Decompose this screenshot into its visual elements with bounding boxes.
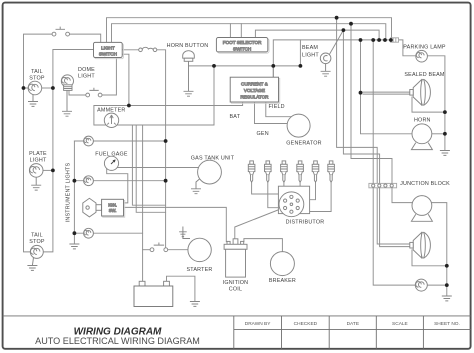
ground below horn button bbox=[184, 91, 194, 96]
svg-text:REGULATOR: REGULATOR bbox=[240, 94, 269, 99]
wire fuel gage to gas tank unit bbox=[117, 167, 198, 169]
spark plug 2 bbox=[265, 161, 272, 182]
wire gen lead bbox=[255, 102, 288, 124]
distributor box bbox=[278, 186, 309, 213]
svg-text:SWITCH: SWITCH bbox=[99, 51, 117, 56]
svg-text:DATE: DATE bbox=[347, 321, 359, 327]
node busA lamp1 bbox=[164, 139, 168, 143]
node plate right bbox=[51, 169, 55, 173]
breaker bbox=[270, 252, 294, 276]
node horn wire c bbox=[299, 64, 303, 68]
wire regulator top feed bbox=[272, 66, 274, 77]
wire cutout switch right leg to light switch bbox=[69, 34, 100, 42]
current voltage regulator box U2 bbox=[230, 77, 279, 103]
svg-text:DOME: DOME bbox=[78, 67, 95, 73]
wire ign area link to bus A bbox=[136, 125, 165, 212]
wire light switch right to fuse bbox=[122, 49, 139, 51]
ground below tail stop 1 bbox=[28, 94, 38, 106]
wire right bus D3 stair to sealed beam 2 lower bbox=[343, 30, 409, 247]
lamp dome light bbox=[61, 75, 73, 91]
beam light lamp bbox=[320, 53, 331, 64]
wire spark plug 1 lead bbox=[252, 182, 279, 194]
svg-text:LIGHT: LIGHT bbox=[101, 45, 115, 50]
svg-text:DRAWN BY: DRAWN BY bbox=[245, 321, 271, 327]
svg-text:PARKING LAMP: PARKING LAMP bbox=[403, 44, 446, 50]
node horn wire b bbox=[271, 64, 275, 68]
wire light switch right to bat junction bbox=[122, 54, 129, 105]
wire tail stop 1 right lead bbox=[42, 87, 53, 89]
firewall connector bbox=[391, 38, 399, 42]
wire tail stop 1 left lead bbox=[24, 87, 29, 89]
svg-text:JUNCTION BLOCK: JUNCTION BLOCK bbox=[400, 181, 450, 187]
wire instrument lamp2 leads bbox=[74, 180, 165, 182]
spark plug 1 bbox=[248, 161, 255, 182]
node inst2 bbox=[73, 179, 77, 183]
svg-text:BEAM: BEAM bbox=[302, 45, 318, 51]
parking lamp bbox=[416, 50, 428, 62]
starter motor bbox=[188, 238, 211, 261]
svg-text:LIGHT: LIGHT bbox=[30, 158, 47, 164]
wire sealed beam 2 bottom link bbox=[412, 250, 447, 266]
spark plug 6 bbox=[328, 161, 335, 182]
node conn a bbox=[359, 38, 363, 42]
battery BT1 bbox=[134, 281, 173, 306]
ground below horn right column bbox=[440, 151, 450, 156]
node conn c bbox=[377, 38, 381, 42]
svg-text:FUEL GAGE: FUEL GAGE bbox=[95, 152, 128, 158]
sealed beam 1 bbox=[410, 79, 431, 105]
node horn1 link bbox=[443, 132, 447, 136]
wire parking lamp right to right column bbox=[427, 56, 445, 151]
wire ammeter drop to ign area bbox=[132, 125, 165, 205]
junction block connector bbox=[369, 183, 397, 187]
node conn e bbox=[389, 38, 393, 42]
wire sealed beam 1 feed bbox=[361, 92, 410, 94]
wire junction horn right lead to lower column bbox=[431, 203, 446, 296]
svg-text:HORN: HORN bbox=[414, 117, 431, 123]
svg-text:SHEET NO.: SHEET NO. bbox=[434, 321, 460, 327]
lamp plate light bbox=[29, 164, 43, 178]
wire horn junction up to connector run bbox=[299, 40, 301, 66]
svg-text:STARTER: STARTER bbox=[186, 267, 212, 273]
wire right bus D2 stair to junction block horn bbox=[351, 24, 412, 203]
wire light switch bottom to dome switch bbox=[102, 58, 117, 96]
spark plug 4 bbox=[297, 161, 304, 182]
junction block horn 2 bbox=[411, 196, 432, 222]
svg-text:TAIL: TAIL bbox=[31, 69, 43, 75]
svg-text:VOLTAGE: VOLTAGE bbox=[244, 88, 265, 93]
node horn wire a bbox=[212, 64, 216, 68]
svg-text:DISTRIBUTOR: DISTRIBUTOR bbox=[286, 219, 325, 225]
wire starter switch left lead bbox=[143, 249, 151, 251]
svg-text:GAS TANK UNIT: GAS TANK UNIT bbox=[191, 155, 235, 161]
starter switch S2 bbox=[150, 243, 168, 252]
cutout switch S1 top left bbox=[52, 27, 69, 36]
wire instrument lights bus bbox=[73, 141, 75, 244]
ignition coil T1 bbox=[224, 239, 247, 277]
title block bbox=[3, 316, 471, 349]
ammeter M1 bbox=[104, 113, 118, 127]
wire instrument lamp1 leads bbox=[74, 140, 165, 142]
svg-text:SW.: SW. bbox=[109, 208, 117, 213]
svg-text:TAIL: TAIL bbox=[31, 233, 43, 239]
horn button bbox=[183, 51, 195, 92]
instrument lamp 2 bbox=[84, 176, 94, 186]
wire connector drop to rear lamp bbox=[373, 40, 415, 285]
wire bat regulator to ammeter loop bbox=[94, 102, 243, 281]
svg-text:HORN BUTTON: HORN BUTTON bbox=[167, 43, 209, 49]
node rear lamp link bbox=[445, 283, 449, 287]
wire W4 firewall connector run to parking lamp bbox=[273, 40, 416, 77]
svg-text:STOP: STOP bbox=[29, 76, 45, 82]
svg-text:SCALE: SCALE bbox=[392, 321, 408, 327]
node sb1 feed bbox=[359, 91, 363, 95]
ignition switch box bbox=[102, 199, 125, 217]
wire ammeter return to horn junction bbox=[143, 124, 214, 126]
ground below beam light bbox=[321, 64, 331, 77]
wire cutout switch left leg bbox=[24, 34, 53, 252]
wire plate light right lead bbox=[43, 169, 53, 171]
spark plug 3 bbox=[281, 161, 288, 182]
svg-text:PLATE: PLATE bbox=[29, 151, 47, 157]
node W2 drop bbox=[349, 22, 353, 26]
horn 1 bbox=[411, 124, 432, 150]
wire foot selector drop A bbox=[229, 24, 231, 38]
svg-text:FOOT SELECTOR: FOOT SELECTOR bbox=[223, 40, 262, 45]
wire instrument lamp3 leads bbox=[74, 232, 142, 234]
sealed beam 2 bbox=[410, 232, 431, 258]
wire W3 foot selector to right bus third bbox=[255, 30, 379, 40]
light switch box U1 bbox=[94, 42, 124, 58]
svg-text:AUTO ELECTRICAL WIRING DIAGRAM: AUTO ELECTRICAL WIRING DIAGRAM bbox=[35, 336, 200, 346]
node conn d bbox=[383, 38, 387, 42]
svg-text:STOP: STOP bbox=[29, 239, 45, 245]
svg-text:BREAKER: BREAKER bbox=[269, 278, 296, 284]
svg-text:COIL: COIL bbox=[229, 287, 242, 293]
wire right bus D1 stair to sealed beam 2 upper bbox=[337, 18, 410, 244]
node sb2 link bbox=[445, 264, 449, 268]
wire starter switch to starter bbox=[168, 249, 188, 251]
wire battery negative to ground bbox=[167, 276, 195, 301]
wire spark plug 5 lead bbox=[310, 182, 316, 200]
wire horn button feed bbox=[189, 65, 301, 67]
wire spark plug 3 lead bbox=[283, 182, 285, 186]
svg-text:GENERATOR: GENERATOR bbox=[286, 140, 321, 146]
wire spark plug 4 lead bbox=[299, 182, 301, 186]
ground below tail stop 2 bbox=[27, 258, 37, 271]
ground bottom right bbox=[442, 296, 452, 301]
distributor bbox=[279, 192, 304, 217]
lamp tail stop 1 bbox=[28, 81, 42, 95]
wire horn junction down to ammeter return bbox=[213, 66, 215, 125]
wire light switch left to tail-plate bus bbox=[43, 50, 93, 252]
wire sealed beam 1 bottom link bbox=[412, 97, 445, 112]
ground below plate light bbox=[31, 177, 41, 190]
lamp tail stop 2 bbox=[30, 245, 43, 258]
node sb1 link bbox=[443, 110, 447, 114]
svg-text:SEALED BEAM: SEALED BEAM bbox=[404, 72, 445, 78]
fuse F1 bbox=[139, 47, 157, 51]
generator G1 bbox=[287, 114, 310, 137]
wire fuse to middle bus A bbox=[157, 50, 166, 248]
node inst3 bbox=[73, 231, 77, 235]
svg-text:GEN: GEN bbox=[257, 131, 269, 137]
wire W1 light switch to right bus top bbox=[107, 18, 392, 43]
wire connector drop to sealed beam 1 and horn bbox=[361, 40, 413, 134]
svg-text:AMMETER: AMMETER bbox=[97, 108, 125, 114]
fuel gage M2 bbox=[104, 156, 118, 170]
wire fuel gage to ignition switch bbox=[107, 169, 128, 203]
ground battery negative bbox=[190, 302, 200, 307]
node tail1 right bbox=[51, 86, 55, 90]
node W1 drop bbox=[335, 16, 339, 20]
wire rear lamp right lead bbox=[427, 284, 447, 286]
ground above starter bbox=[179, 227, 190, 239]
node tail1 left bbox=[22, 86, 26, 90]
wire ignition switch to coil bbox=[124, 207, 227, 241]
wire spark plug 2 lead bbox=[268, 182, 279, 208]
svg-text:BAT: BAT bbox=[230, 114, 241, 120]
wire foot selector drop B bbox=[240, 24, 242, 38]
ground below dome light bbox=[62, 90, 72, 116]
instrument lamp 1 bbox=[84, 136, 94, 146]
spark plug 5 bbox=[312, 161, 319, 182]
node W3 drop bbox=[342, 28, 346, 32]
ground below instrument lights bus bbox=[69, 244, 79, 249]
wire beam light diagonal bbox=[329, 30, 343, 54]
svg-text:FIELD: FIELD bbox=[269, 104, 285, 110]
ground below gas tank unit bbox=[191, 179, 201, 194]
svg-text:LIGHT: LIGHT bbox=[78, 74, 95, 80]
wire field lead bbox=[266, 102, 292, 117]
wire distributor high tension to coil bbox=[235, 205, 291, 239]
node conn b bbox=[371, 38, 375, 42]
wire dome lamp base to dome switch bbox=[69, 90, 86, 95]
wire horn right lead bbox=[432, 133, 445, 135]
node bat junction bbox=[127, 104, 131, 108]
wire W2 light switch to right bus second bbox=[112, 24, 386, 43]
foot selector switch box U3 bbox=[216, 38, 269, 54]
wire coil to breaker bbox=[244, 239, 283, 252]
instrument lamp 3 bbox=[84, 228, 94, 238]
svg-text:LIGHT: LIGHT bbox=[302, 52, 319, 58]
svg-text:CHECKED: CHECKED bbox=[294, 321, 318, 327]
ignition switch key bbox=[83, 198, 102, 217]
gas tank unit sender bbox=[198, 160, 222, 184]
switch dome light bbox=[86, 88, 102, 97]
svg-text:INSTRUMENT LIGHTS: INSTRUMENT LIGHTS bbox=[66, 162, 72, 222]
svg-text:SWITCH: SWITCH bbox=[233, 46, 251, 51]
svg-text:CURRENT &: CURRENT & bbox=[241, 82, 268, 87]
rear lamp bbox=[415, 279, 427, 291]
node busA lamp2 bbox=[164, 179, 168, 183]
svg-text:IGNITION: IGNITION bbox=[223, 280, 249, 286]
wire spark plug 6 lead bbox=[310, 182, 332, 211]
